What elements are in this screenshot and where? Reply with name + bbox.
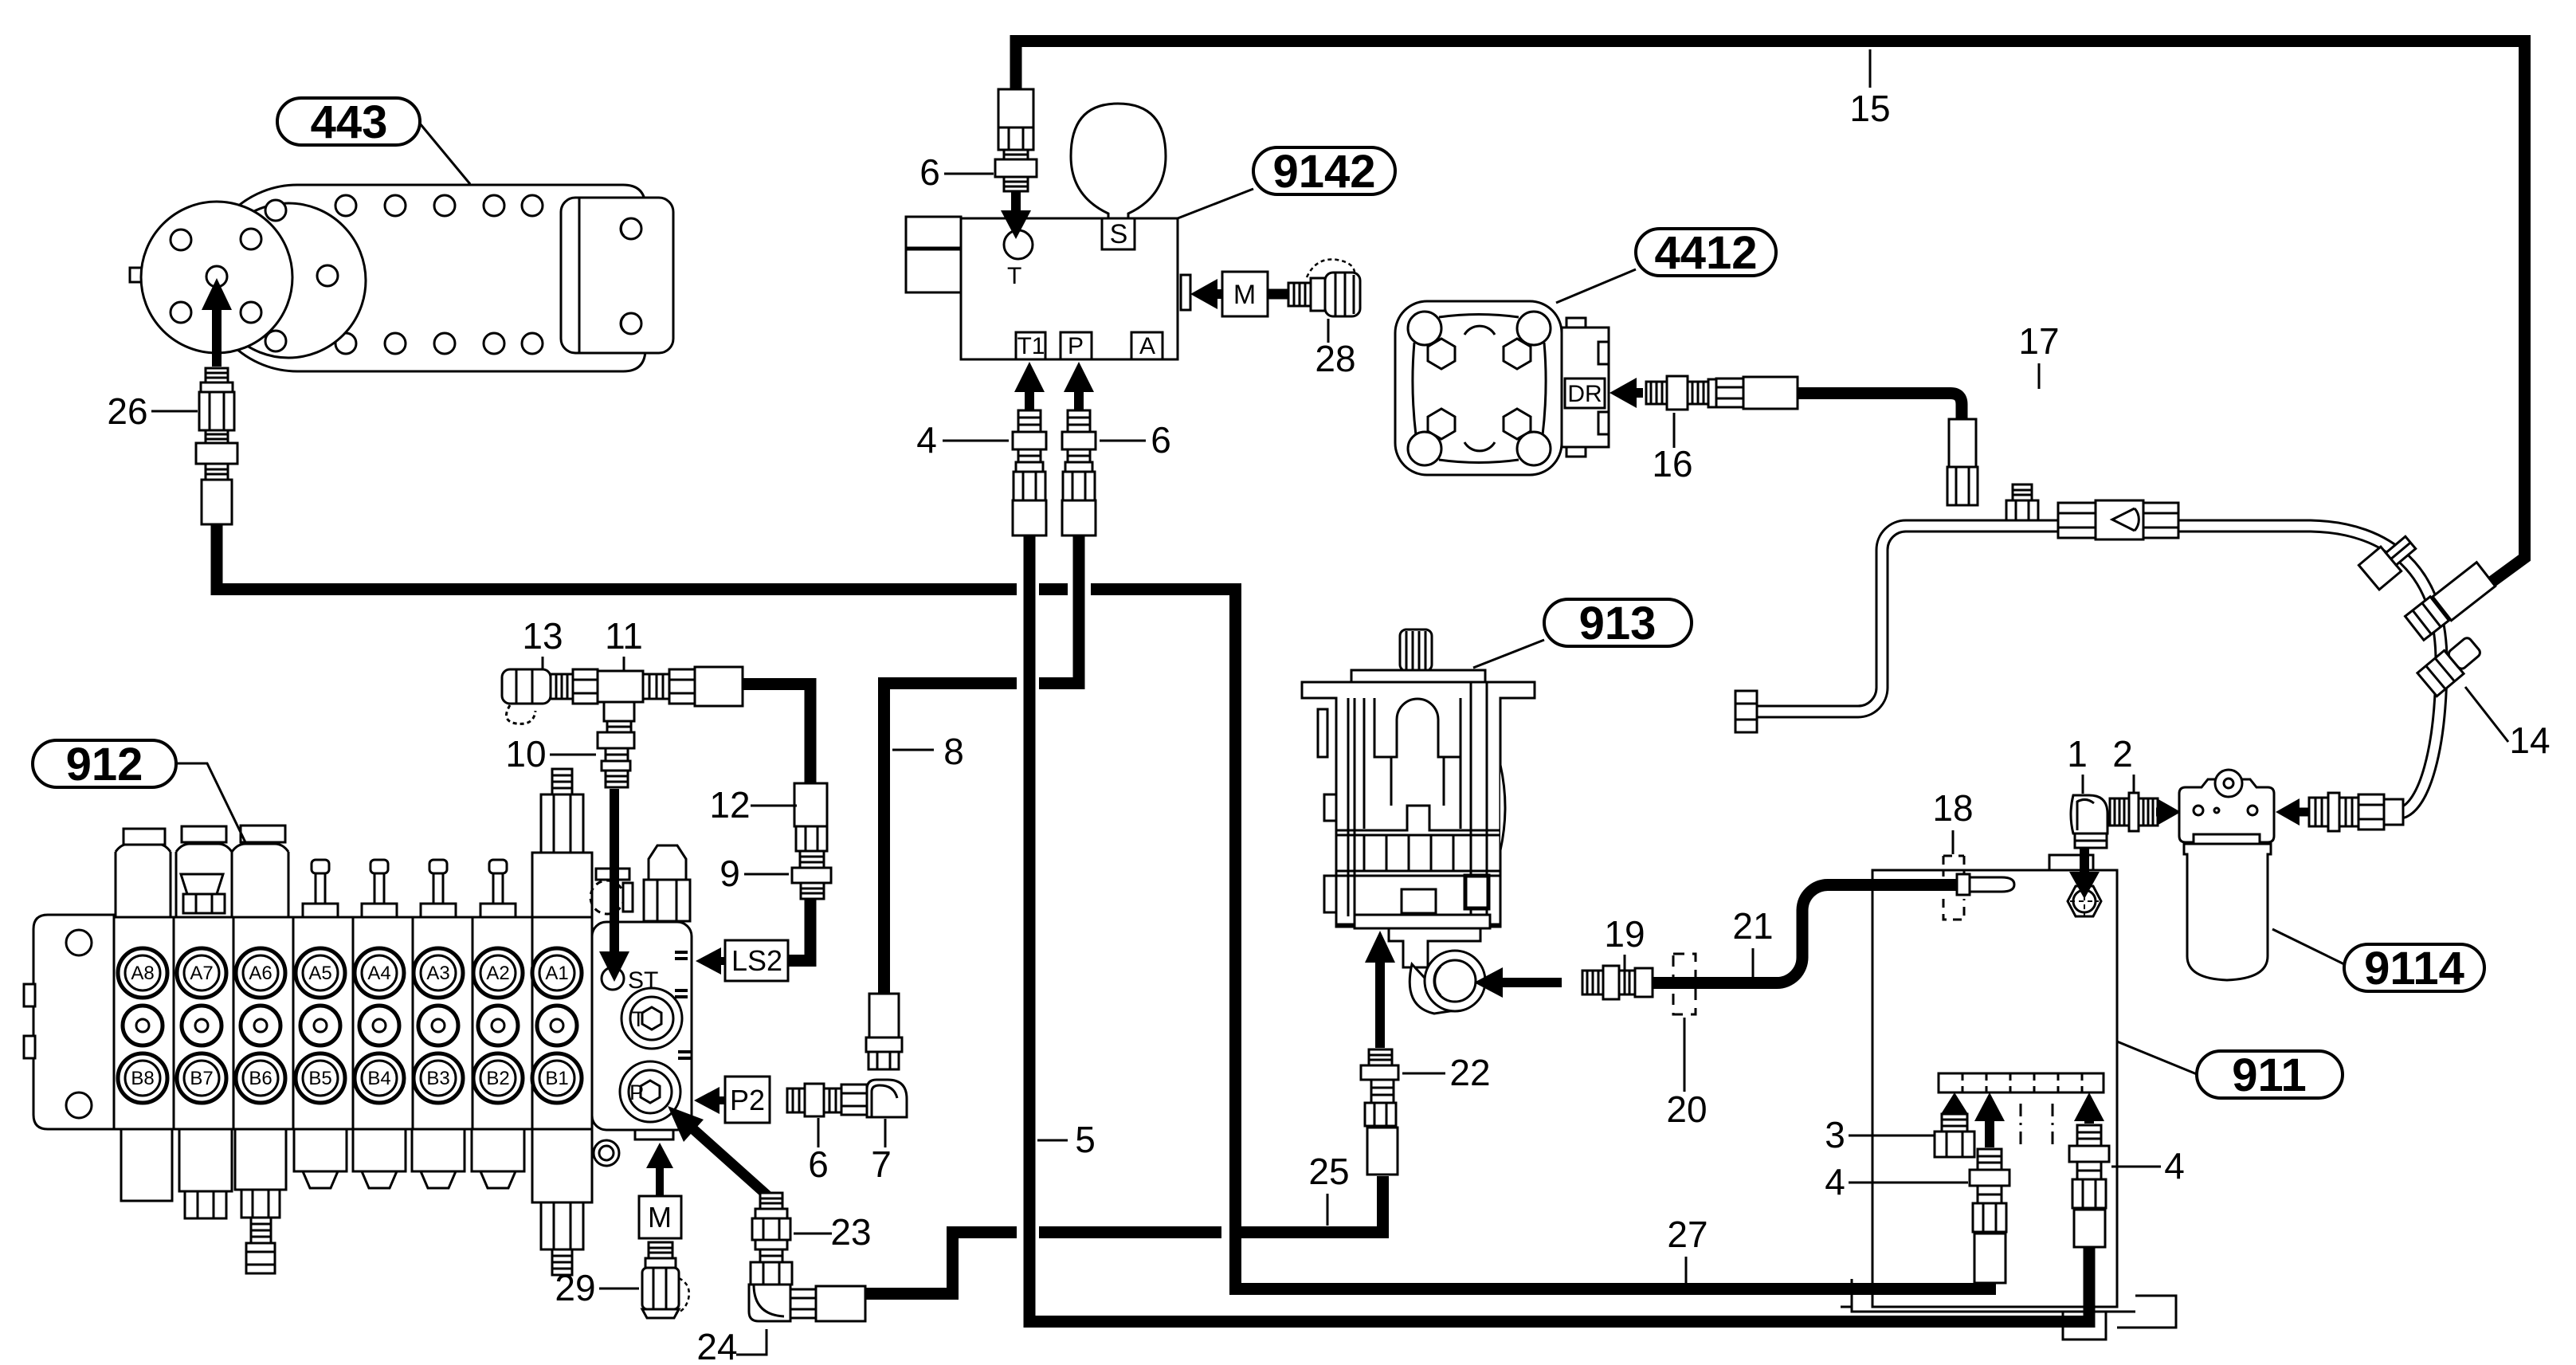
pump 913 left tabs: [1324, 794, 1336, 821]
fitting 29 plug: [649, 1242, 672, 1258]
fitting 6 above valve (hose 15 end): [998, 89, 1033, 127]
hose 21 (pump to tank suction): [1653, 885, 1958, 983]
top actuators 912: [116, 844, 171, 917]
port DR box: [1565, 379, 1605, 408]
svg-text:20: 20: [1666, 1088, 1707, 1130]
fitting 28 with thick stub: [1268, 289, 1291, 300]
tube end cap nut: [1735, 691, 1757, 732]
tank port arrow 3: [1951, 1110, 1958, 1118]
svg-text:7: 7: [871, 1143, 892, 1185]
svg-text:913: 913: [1579, 598, 1657, 649]
clamp 18 dashed: [1943, 856, 1964, 920]
svg-text:LS2: LS2: [731, 944, 782, 977]
pump 913 right bulge: [1500, 765, 1505, 850]
suction standpipe: [1957, 874, 1970, 895]
port M box 912 with arrow: [656, 1168, 664, 1195]
tank port arrow 4 right: [2084, 1121, 2094, 1124]
svg-text:22: 22: [1449, 1052, 1490, 1093]
fitting 16: [1646, 382, 1667, 404]
hose 5 (T1 to tank right port): [1029, 532, 2089, 1322]
svg-text:B3: B3: [426, 1068, 449, 1089]
end plate bottom bolt: [594, 1140, 619, 1166]
test point cap 13: [502, 669, 551, 704]
svg-text:24: 24: [696, 1326, 737, 1365]
svg-text:25: 25: [1308, 1151, 1349, 1192]
tee 11: [573, 669, 598, 704]
hose 12 (tee 11 to fitting 9): [741, 684, 810, 784]
svg-text:28: 28: [1315, 338, 1355, 379]
rotated sleeve joining hose 15 to tube: [2433, 563, 2496, 621]
svg-text:P: P: [1068, 333, 1084, 359]
svg-text:19: 19: [1604, 913, 1645, 955]
svg-text:13: 13: [522, 615, 563, 657]
valve 9142 left tabs: [906, 217, 961, 248]
fitting 4 middle: [1978, 1149, 2002, 1170]
valve section A4/B4: [355, 948, 404, 998]
svg-text:M: M: [1233, 280, 1256, 310]
svg-text:A5: A5: [308, 963, 331, 984]
pump 913 top plate: [1351, 670, 1485, 682]
pump 913 shaft: [1400, 630, 1432, 671]
svg-text:23: 23: [830, 1211, 871, 1253]
fitting 14 on tube: [2417, 633, 2484, 696]
pump 913 lower band: [1336, 871, 1500, 876]
hose 17 (fitting 16 to tube): [1798, 394, 1962, 420]
svg-text:4: 4: [916, 419, 937, 461]
valve bank 912 mounting bracket: [33, 915, 114, 1129]
clamp 20 dashed: [1673, 954, 1696, 1014]
callout 9142: [1253, 147, 1395, 194]
svg-text:A6: A6: [249, 963, 272, 984]
hose 15 top line: [1016, 41, 2525, 588]
tank hex plug: [2068, 886, 2101, 916]
end plate bottom tab: [635, 1130, 673, 1139]
fitting 4 below T1: [1018, 410, 1041, 432]
port P end plate: [620, 1061, 680, 1122]
motor 443 body bolt holes top row: [335, 195, 356, 216]
port S box: [1102, 218, 1135, 249]
end plate block: [592, 922, 692, 1130]
arrow diagonal into P: [678, 1116, 769, 1197]
svg-text:B8: B8: [131, 1068, 154, 1089]
valve bank 912 body: [114, 917, 592, 1129]
port LS2 box with arrow: [721, 957, 728, 965]
end plate relief valve: [649, 845, 686, 880]
svg-text:A8: A8: [131, 963, 154, 984]
elbow 24: [751, 1262, 792, 1285]
valve section A5/B5: [296, 948, 345, 998]
fitting 4 right: [2077, 1125, 2101, 1146]
svg-text:A1: A1: [545, 963, 568, 984]
port P2 box with arrow: [719, 1096, 725, 1104]
svg-text:912: 912: [66, 739, 143, 790]
svg-text:6: 6: [1151, 419, 1171, 461]
small plug on tube: [2013, 484, 2032, 500]
fitting 6 below P: [1068, 410, 1090, 432]
callout 443: [277, 98, 420, 145]
callout 9114: [2344, 944, 2484, 991]
valve section A1/B1: [532, 948, 582, 998]
svg-text:14: 14: [2509, 720, 2550, 761]
port P box: [1061, 332, 1092, 359]
svg-text:6: 6: [808, 1143, 829, 1185]
pump 913 suction ring: [1410, 964, 1455, 1014]
fitting 19: [1582, 971, 1603, 994]
svg-text:T1: T1: [1017, 333, 1045, 359]
filter canister 9114: [2184, 844, 2271, 980]
svg-text:A3: A3: [426, 963, 449, 984]
tank 911 body: [1872, 870, 2117, 1307]
callout 911: [2197, 1051, 2343, 1098]
elbow 7: [841, 1085, 867, 1115]
bottom actuators 912: [121, 1129, 172, 1201]
hose 25 (elbow 24 to pump 913): [865, 1233, 1017, 1294]
motor 443 body: [204, 185, 645, 371]
arrow into filter head right: [2300, 808, 2309, 817]
tank port arrow 4 middle: [1985, 1121, 1994, 1147]
motor 443 rear flange ring: [211, 203, 366, 358]
svg-text:911: 911: [2232, 1049, 2307, 1101]
tank filler neck: [2049, 855, 2093, 870]
svg-text:12: 12: [709, 784, 750, 826]
svg-text:9142: 9142: [1272, 146, 1375, 198]
svg-text:27: 27: [1667, 1214, 1708, 1255]
top pilot stems 912: [316, 872, 325, 904]
hose 26-to-tank (return line, label 27): [217, 518, 1017, 590]
svg-text:A4: A4: [367, 963, 390, 984]
fitting 6 at P2: [787, 1088, 805, 1112]
svg-text:B4: B4: [367, 1068, 390, 1089]
svg-text:S: S: [1110, 219, 1128, 249]
pump 4412 flange: [1395, 301, 1562, 475]
motor 443 mounting bracket: [561, 198, 673, 353]
pump 913 upper channel: [1374, 698, 1461, 757]
valve 9142 accumulator dome: [1071, 104, 1166, 218]
svg-text:4412: 4412: [1654, 227, 1757, 279]
svg-text:P2: P2: [730, 1084, 765, 1116]
filter head 9114: [2179, 779, 2274, 842]
arrow up into pump 913: [1375, 963, 1385, 1048]
tank strainer dashed: [1939, 1073, 2104, 1092]
svg-text:A: A: [1139, 333, 1155, 359]
arrow into motor port: [212, 310, 222, 367]
svg-text:9114: 9114: [2364, 943, 2464, 994]
fitting 3 plug: [1942, 1114, 1967, 1132]
svg-text:9: 9: [719, 853, 740, 894]
valve section A6/B6: [236, 948, 285, 998]
svg-text:M: M: [648, 1201, 672, 1234]
valve section A8/B8: [118, 948, 167, 998]
svg-text:26: 26: [107, 390, 147, 432]
fitting 23: [760, 1193, 782, 1209]
top relief A1 912: [532, 853, 592, 917]
callout 913: [1544, 599, 1692, 646]
fitting 9: [792, 868, 831, 883]
hose 17 connection sleeve on tube: [1949, 419, 1976, 467]
svg-text:5: 5: [1075, 1119, 1096, 1160]
svg-text:10: 10: [505, 733, 546, 775]
hose P-to-P2 (line 8): [1039, 532, 1079, 684]
port T1 box: [1016, 332, 1045, 359]
svg-text:4: 4: [2164, 1145, 2185, 1187]
fitting 10: [598, 732, 634, 748]
svg-text:A7: A7: [190, 963, 213, 984]
tee 11 right branch: [643, 674, 669, 699]
svg-text:15: 15: [1849, 88, 1890, 129]
arrow into ST: [610, 789, 619, 951]
svg-text:443: 443: [311, 96, 388, 148]
check valve: [2058, 503, 2096, 538]
svg-text:3: 3: [1825, 1114, 1845, 1155]
svg-text:DR: DR: [1567, 381, 1602, 407]
pump 4412 side block: [1562, 328, 1609, 447]
motor 443 front flange disc: [130, 268, 143, 282]
svg-text:6: 6: [919, 151, 940, 193]
port M box 9142 with arrow: [1181, 275, 1190, 310]
svg-text:P: P: [629, 1081, 644, 1104]
arrow into suction ring: [1503, 978, 1562, 987]
thin tube pipe run: [1750, 526, 2441, 813]
arrows into T1 and P: [1025, 392, 1034, 410]
svg-text:B2: B2: [486, 1068, 509, 1089]
pump 913 body: [1302, 682, 1535, 927]
filter right fitting: [2309, 798, 2328, 826]
svg-text:2: 2: [2112, 733, 2133, 775]
valve section A7/B7: [177, 948, 226, 998]
pump 913 bottom flange: [1355, 915, 1490, 928]
end plate LS marks: [675, 952, 691, 1129]
hose 17 sleeve: [1743, 377, 1798, 409]
callout 912: [33, 740, 176, 787]
arrow down into tank port: [2080, 841, 2089, 872]
nuts pair on tube upper bulge: [2358, 531, 2421, 590]
tank 911 base: [1841, 1279, 2176, 1328]
fitting 22: [1369, 1049, 1392, 1065]
svg-text:A2: A2: [486, 963, 509, 984]
valve section A2/B2: [473, 948, 523, 998]
fitting 26: [206, 368, 228, 382]
svg-text:T: T: [632, 1007, 645, 1031]
svg-text:T: T: [1007, 263, 1021, 289]
svg-text:B6: B6: [249, 1068, 272, 1089]
port T end plate: [621, 988, 682, 1049]
svg-text:21: 21: [1732, 905, 1773, 947]
port T circle: [1004, 230, 1033, 259]
callout 4412: [1636, 229, 1776, 276]
hose 10 (tee to ST): [610, 731, 622, 787]
svg-text:16: 16: [1652, 443, 1692, 484]
svg-text:17: 17: [2018, 320, 2059, 362]
arrow into filter head left: [2156, 808, 2157, 817]
pump 913 mid band: [1336, 806, 1500, 835]
motor 443 body bolt holes bottom row: [335, 333, 356, 354]
svg-text:B7: B7: [190, 1068, 213, 1089]
svg-text:11: 11: [605, 615, 643, 657]
svg-text:29: 29: [555, 1267, 595, 1308]
svg-text:B5: B5: [308, 1068, 331, 1089]
svg-text:18: 18: [1932, 787, 1973, 829]
arrow into DR: [1637, 388, 1643, 398]
fitting 12: [794, 783, 827, 826]
svg-text:1: 1: [2067, 733, 2088, 775]
valve 9142 block: [961, 218, 1178, 359]
end plate top bolt: [596, 869, 629, 880]
svg-text:B1: B1: [545, 1068, 568, 1089]
elbow 1: [2071, 795, 2107, 834]
valve section A3/B3: [414, 948, 463, 998]
svg-text:8: 8: [943, 731, 964, 772]
arrow into port T: [1011, 191, 1021, 210]
port ST: [602, 967, 624, 990]
svg-text:4: 4: [1825, 1161, 1845, 1202]
port A box: [1131, 332, 1163, 359]
